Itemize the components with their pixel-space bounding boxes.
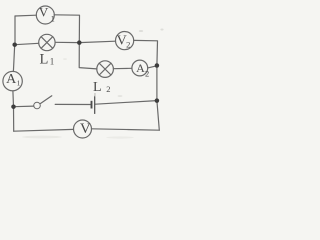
svg-text:2: 2 [106,84,110,94]
svg-text:1: 1 [50,57,55,67]
svg-text:A: A [6,72,17,87]
svg-text:1: 1 [17,79,21,88]
svg-text:V: V [80,121,91,137]
svg-text:1: 1 [51,14,55,24]
svg-text:2: 2 [145,68,149,78]
svg-text:A: A [136,61,145,75]
svg-text:2: 2 [126,39,130,49]
svg-text:L: L [40,52,49,68]
svg-text:L: L [93,80,102,95]
svg-text:V: V [39,5,49,20]
